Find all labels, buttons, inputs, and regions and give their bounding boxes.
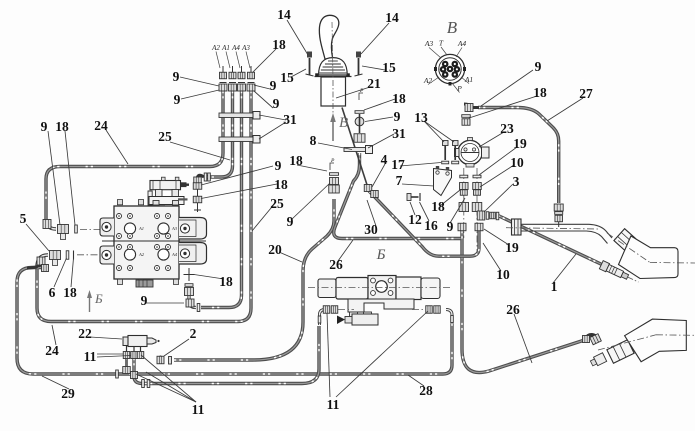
svg-text:27: 27 bbox=[579, 86, 593, 101]
svg-text:18: 18 bbox=[274, 177, 288, 192]
label 15 bbox=[382, 60, 396, 75]
label 19 bbox=[505, 240, 519, 255]
leader 17 bbox=[400, 163, 441, 167]
bulkhead flange 19 bbox=[512, 219, 522, 235]
label 14 bbox=[277, 7, 291, 22]
label 30 bbox=[364, 222, 378, 237]
elbow connectors item 4 bbox=[364, 185, 378, 198]
svg-text:14: 14 bbox=[277, 7, 291, 22]
datum mark above fitting (item 18 tag) bbox=[359, 88, 364, 100]
leader 19 bottom bbox=[484, 229, 509, 245]
svg-text:18: 18 bbox=[219, 274, 233, 289]
valve 22 three lower studs with tee fittings 11 bbox=[123, 346, 144, 359]
hose 20/2 bbox=[174, 199, 334, 360]
leader 28 bbox=[408, 375, 424, 386]
label 9 bbox=[447, 219, 454, 234]
duct tube to upper nozzle bbox=[521, 224, 612, 243]
label 11 bbox=[84, 349, 97, 364]
label view B title bbox=[447, 18, 458, 37]
lower nozzle elbow fitting bbox=[583, 334, 602, 345]
label 18 bbox=[55, 119, 69, 134]
hose 24 (pipe A2 to left elbow) bbox=[46, 91, 223, 219]
leader 26 right bbox=[514, 314, 532, 363]
fittings 18/10 chain left x463 bbox=[459, 183, 469, 212]
leader 26 mid bbox=[338, 240, 353, 261]
label 18 bbox=[63, 285, 77, 300]
elbow fitting row1 left bbox=[43, 219, 56, 229]
leader 11 left b bbox=[97, 356, 131, 358]
fitting 9 on chain x189 bbox=[185, 284, 194, 296]
pipe label A3 bbox=[241, 44, 250, 68]
fittings 10/19 chain right x477 bbox=[472, 183, 482, 212]
washer 18 on chain x359 bbox=[355, 111, 364, 114]
label 26 bbox=[506, 302, 520, 317]
leader 15 left bbox=[291, 69, 306, 77]
svg-text:A1: A1 bbox=[138, 226, 144, 231]
svg-text:17: 17 bbox=[391, 157, 405, 172]
svg-text:A4: A4 bbox=[231, 44, 240, 52]
svg-text:10: 10 bbox=[496, 267, 510, 282]
manifold assembly on top of valve block bbox=[148, 177, 189, 205]
washers 19 under valve 23 bbox=[460, 175, 481, 178]
svg-text:18: 18 bbox=[272, 37, 286, 52]
label 18 bbox=[219, 274, 233, 289]
leader 16 bbox=[420, 202, 430, 221]
svg-text:11: 11 bbox=[84, 349, 97, 364]
svg-text:6: 6 bbox=[49, 285, 56, 300]
svg-text:8: 8 bbox=[310, 133, 317, 148]
label 9 bbox=[141, 293, 148, 308]
svg-text:12: 12 bbox=[408, 212, 422, 227]
coupling on hose at valve22 middle elbow bbox=[142, 380, 150, 388]
hose 26 junction stub up bbox=[460, 223, 463, 239]
cylinder mounting bracket bbox=[348, 299, 414, 319]
svg-text:A2: A2 bbox=[423, 76, 433, 85]
label 9 bbox=[270, 78, 277, 93]
fitting 9 on chain x359 bbox=[355, 114, 364, 133]
label 9 bbox=[394, 109, 401, 124]
pin label T bbox=[439, 39, 447, 56]
label 18 bbox=[533, 85, 547, 100]
svg-text:18: 18 bbox=[392, 91, 406, 106]
svg-text:13: 13 bbox=[414, 110, 428, 125]
svg-text:A4: A4 bbox=[171, 252, 178, 257]
dash-dot line row1 to block bbox=[80, 228, 113, 230]
svg-text:A2: A2 bbox=[138, 252, 145, 257]
power cylinder assembly bbox=[308, 276, 452, 301]
label 2 bbox=[190, 326, 197, 341]
leader 18 chain463 bbox=[440, 190, 460, 206]
label 21 bbox=[367, 76, 381, 91]
tee fitting 9 row1 bbox=[58, 225, 69, 240]
leader 31 b bbox=[259, 122, 286, 139]
fitting 11 on middle drop bbox=[131, 372, 138, 379]
leader 22 bbox=[90, 337, 122, 339]
svg-text:20: 20 bbox=[268, 242, 282, 257]
label 6 bbox=[49, 285, 56, 300]
label 12 bbox=[408, 212, 422, 227]
valve block (spool valve assembly) bbox=[102, 206, 206, 279]
svg-text:5: 5 bbox=[20, 211, 27, 226]
svg-text:9: 9 bbox=[41, 119, 48, 134]
leader 18 hose27 bbox=[469, 96, 537, 118]
label 10 bbox=[496, 267, 510, 282]
leader 18 P-mark bbox=[297, 165, 327, 171]
svg-text:28: 28 bbox=[419, 383, 433, 398]
hose from joystick base to node 4 bbox=[342, 108, 369, 192]
svg-text:9: 9 bbox=[270, 78, 277, 93]
label 31 bbox=[283, 112, 297, 127]
svg-text:Б: Б bbox=[376, 247, 386, 263]
leader 30 bbox=[367, 200, 376, 226]
section arrow B (lower left) bbox=[87, 290, 103, 312]
leader 27 bbox=[547, 98, 583, 121]
label 19 bbox=[513, 136, 527, 151]
leader 9 chain463 bbox=[450, 198, 465, 223]
fitting 18 at hose 27 lower end bbox=[554, 204, 563, 227]
bolts on valve block top and bottom edges bbox=[117, 200, 178, 287]
leader 1 bbox=[553, 254, 576, 283]
leader 25 pipe bbox=[252, 202, 276, 231]
svg-text:В: В bbox=[339, 115, 348, 131]
svg-text:4: 4 bbox=[381, 152, 388, 167]
washer on chain x334 bbox=[330, 173, 339, 176]
label 5 bbox=[20, 211, 27, 226]
label 3 bbox=[513, 174, 520, 189]
svg-text:31: 31 bbox=[392, 126, 406, 141]
leader 11 left a bbox=[97, 353, 123, 355]
tee fitting 3 and couplings on line to hose 1 bbox=[477, 211, 499, 220]
svg-text:9: 9 bbox=[173, 69, 180, 84]
label 27 bbox=[579, 86, 593, 101]
svg-text:15: 15 bbox=[280, 70, 294, 85]
svg-text:Б: Б bbox=[94, 291, 103, 306]
leader 18 pipes bbox=[253, 49, 276, 72]
label 9 bbox=[174, 92, 181, 107]
svg-text:A1: A1 bbox=[221, 44, 230, 52]
clamp 31 upper on pipe bundle bbox=[219, 112, 260, 120]
pipe label A4 bbox=[231, 44, 240, 68]
svg-text:P: P bbox=[330, 158, 335, 164]
leader 9 pipes r1 bbox=[254, 85, 270, 89]
leader 6 bbox=[54, 258, 67, 287]
leader 18 cross bbox=[194, 275, 224, 280]
elbow fittings at junction x462/x479 bbox=[458, 223, 483, 231]
svg-text:9: 9 bbox=[287, 214, 294, 229]
label 9 bbox=[287, 214, 294, 229]
svg-text:9: 9 bbox=[174, 92, 181, 107]
elbow fittings row2 left bbox=[27, 255, 49, 272]
leader 5 bbox=[26, 224, 49, 251]
svg-text:23: 23 bbox=[500, 121, 514, 136]
leader 13 b bbox=[424, 121, 454, 142]
svg-text:9: 9 bbox=[394, 109, 401, 124]
svg-text:19: 19 bbox=[505, 240, 519, 255]
label 14 bbox=[385, 10, 399, 25]
svg-text:9: 9 bbox=[273, 96, 280, 111]
leader 18 left top bbox=[65, 131, 75, 225]
lower nozzle small nipple bbox=[589, 353, 606, 368]
svg-text:A2: A2 bbox=[211, 44, 220, 52]
leader 9 pipes l1 bbox=[180, 77, 219, 86]
label 24 bbox=[94, 118, 108, 133]
leader 7 bbox=[402, 184, 434, 186]
svg-text:30: 30 bbox=[364, 222, 378, 237]
svg-text:14: 14 bbox=[385, 10, 399, 25]
label 22 bbox=[78, 326, 92, 341]
pump under cylinder bbox=[337, 314, 378, 325]
clamp 31 lower on pipe bundle bbox=[219, 136, 260, 144]
hose 1 bbox=[498, 216, 604, 266]
leader 14 left bbox=[287, 20, 308, 55]
leader 13 a bbox=[424, 121, 444, 142]
leader 9 pipes r2 bbox=[254, 91, 273, 108]
label 24 bbox=[45, 343, 59, 358]
label 7 bbox=[396, 173, 403, 188]
valve block right solenoid covers bbox=[179, 218, 207, 265]
svg-text:16: 16 bbox=[424, 218, 438, 233]
leader 24 bottom bbox=[52, 325, 56, 345]
svg-text:1: 1 bbox=[551, 279, 558, 294]
leader 20 bbox=[279, 252, 302, 262]
bolt 12 with washer 16 bbox=[407, 193, 420, 201]
label 9 bbox=[173, 69, 180, 84]
label 17 bbox=[391, 157, 405, 172]
leader 29 bbox=[42, 376, 69, 389]
pin label A4 bbox=[456, 39, 466, 57]
svg-text:21: 21 bbox=[367, 76, 381, 91]
svg-text:2: 2 bbox=[190, 326, 197, 341]
pin label P bbox=[452, 83, 462, 93]
label 9 bbox=[41, 119, 48, 134]
svg-text:22: 22 bbox=[78, 326, 92, 341]
label 18 bbox=[431, 199, 445, 214]
svg-text:11: 11 bbox=[192, 402, 205, 417]
leader 9 long bbox=[201, 166, 273, 185]
leader 24 top bbox=[106, 130, 128, 164]
leader 11 bottom a bbox=[141, 355, 196, 402]
washer 18 row2 bbox=[73, 251, 75, 260]
washer 18 row1 bbox=[75, 225, 78, 233]
svg-text:9: 9 bbox=[141, 293, 148, 308]
label 31 bbox=[392, 126, 406, 141]
label 4 bbox=[381, 152, 388, 167]
label 26 bbox=[329, 257, 343, 272]
hose stub valve22 left port bbox=[125, 352, 128, 369]
label 13 bbox=[414, 110, 428, 125]
svg-text:24: 24 bbox=[45, 343, 59, 358]
leader 10 bottom bbox=[483, 243, 501, 271]
label 18 bbox=[392, 91, 406, 106]
hose 26 (long run to lower nozzle) bbox=[334, 153, 583, 373]
leader 9 hose27 bbox=[481, 70, 533, 106]
svg-text:25: 25 bbox=[158, 129, 172, 144]
pin label A2 bbox=[423, 76, 439, 85]
svg-text:18: 18 bbox=[431, 199, 445, 214]
hose 1 end fitting assembly bbox=[599, 261, 640, 286]
svg-text:25: 25 bbox=[270, 196, 284, 211]
leader 18 long bbox=[201, 184, 277, 199]
svg-text:26: 26 bbox=[506, 302, 520, 317]
leader 25 top bbox=[170, 142, 230, 160]
label 11 bbox=[192, 402, 205, 417]
svg-text:A3: A3 bbox=[171, 226, 178, 231]
label 23 bbox=[500, 121, 514, 136]
datum mark P near fitting x334 bbox=[330, 158, 335, 170]
leader 21 bbox=[336, 87, 370, 98]
svg-text:15: 15 bbox=[382, 60, 396, 75]
svg-text:9: 9 bbox=[535, 59, 542, 74]
leader 23 bbox=[479, 132, 504, 147]
hose (pipe A3 bottom loop) bbox=[37, 91, 251, 322]
lower nozzle corrugated adapter bbox=[607, 340, 634, 364]
leader 9 chain189 bbox=[146, 302, 184, 304]
svg-text:18: 18 bbox=[533, 85, 547, 100]
valve 22 (shut-off valve) bbox=[123, 336, 160, 347]
svg-text:A4: A4 bbox=[457, 39, 467, 48]
elbow fitting at hose 27 start bbox=[464, 104, 479, 112]
connector circle view B bbox=[434, 54, 466, 85]
svg-text:18: 18 bbox=[289, 153, 303, 168]
dash-dot line row2 to block bbox=[77, 254, 113, 256]
svg-text:9: 9 bbox=[447, 219, 454, 234]
label 9 bbox=[273, 96, 280, 111]
upper heater nozzle duct bbox=[506, 228, 695, 279]
elbow to horizontal y307 bbox=[186, 296, 200, 312]
label 9 bbox=[275, 158, 282, 173]
leader 8 bbox=[318, 143, 352, 150]
pin label A1 bbox=[461, 75, 473, 84]
leader 9 pipes l2 bbox=[181, 90, 219, 99]
hose (valve 22 middle port to cylinder left port) bbox=[134, 326, 319, 384]
cylinder right port fittings 11 bbox=[412, 306, 453, 324]
pressure valve 23 bbox=[455, 138, 490, 168]
leader 3 bbox=[484, 184, 513, 212]
fittings 9/18 under manifold (x197) bbox=[193, 183, 202, 212]
label 25 bbox=[270, 196, 284, 211]
pipe top fittings row (A2 A1 A4 A3) bbox=[219, 66, 255, 91]
leader 11 bottom c bbox=[136, 374, 196, 402]
washer/fitting 18 below hose27 elbow bbox=[462, 115, 471, 126]
leader 11 bottom b bbox=[146, 372, 196, 402]
bolts 13 bbox=[443, 141, 459, 161]
tee fitting 5 row2 bbox=[50, 251, 61, 266]
svg-text:3: 3 bbox=[513, 174, 520, 189]
label 8 bbox=[310, 133, 317, 148]
pipe label A2 bbox=[211, 44, 220, 68]
svg-text:A3: A3 bbox=[424, 39, 434, 48]
valve 2 with coupling bbox=[157, 356, 172, 365]
leader 18 row2 bbox=[71, 258, 74, 287]
svg-text:18: 18 bbox=[55, 119, 69, 134]
dash-dot stems under valve 23 bbox=[464, 168, 477, 252]
lower heater nozzle duct bbox=[598, 319, 695, 362]
hose 29/28 outer loop to cylinder right port bbox=[17, 268, 452, 375]
leader 15 right bbox=[362, 66, 385, 70]
hose 27 bbox=[478, 108, 559, 204]
label 11 bbox=[327, 397, 340, 412]
leader 18 x359 bbox=[364, 99, 395, 110]
svg-text:18: 18 bbox=[63, 285, 77, 300]
washers 17 under bolts bbox=[442, 161, 459, 164]
tee fitting 11 on main line below valve22 left stud bbox=[116, 367, 131, 379]
label 18 bbox=[272, 37, 286, 52]
joystick mounting bolt 14 left bbox=[306, 52, 314, 77]
leader 9 left top bbox=[48, 131, 60, 225]
label 9 bbox=[535, 59, 542, 74]
valve block left ears bbox=[100, 218, 114, 264]
leader 11 mid b bbox=[336, 311, 428, 397]
leader 10 top bbox=[480, 165, 514, 187]
fitting 9 on chain x334 bbox=[329, 178, 340, 194]
upper nozzle corrugated adapter bbox=[614, 229, 636, 251]
svg-text:29: 29 bbox=[61, 386, 75, 401]
label 10 bbox=[510, 155, 524, 170]
svg-text:7: 7 bbox=[396, 173, 403, 188]
label 20 bbox=[268, 242, 282, 257]
hose 30 bbox=[369, 191, 479, 256]
leader 31 x359 bbox=[368, 134, 394, 148]
svg-text:9: 9 bbox=[275, 158, 282, 173]
svg-text:26: 26 bbox=[329, 257, 343, 272]
label 18 bbox=[274, 177, 288, 192]
label 29 bbox=[61, 386, 75, 401]
leader 19 top bbox=[479, 147, 517, 175]
label 16 bbox=[424, 218, 438, 233]
svg-text:31: 31 bbox=[283, 112, 297, 127]
leader 9 x359 bbox=[365, 117, 393, 122]
pin label A3 bbox=[424, 39, 441, 58]
leader 11 mid a bbox=[327, 313, 330, 397]
joystick control lever 21 bbox=[315, 15, 352, 114]
nut fitting on chain x359 bbox=[354, 134, 365, 143]
elbow fitting on manifold to hose 25 bbox=[194, 173, 211, 183]
leader 9 x334 bbox=[292, 183, 330, 219]
svg-text:В: В bbox=[447, 18, 458, 37]
svg-text:11: 11 bbox=[327, 397, 340, 412]
cross fitting 18 below solenoid covers bbox=[184, 268, 195, 281]
svg-text:24: 24 bbox=[94, 118, 108, 133]
washer 6 row2 bbox=[66, 251, 69, 260]
hose 25 (pipe A1 to manifold elbow) bbox=[206, 91, 233, 177]
leader 4 bbox=[372, 164, 385, 187]
bracket 7 bbox=[434, 166, 452, 196]
pipe label A1 bbox=[221, 44, 230, 68]
hose (pipe A4 down to elbow chain) bbox=[201, 91, 242, 308]
label 15 bbox=[280, 70, 294, 85]
leader 31 a bbox=[259, 115, 286, 120]
joystick mounting bolt 14 right bbox=[355, 52, 363, 77]
label 1 bbox=[551, 279, 558, 294]
leader 2 bbox=[164, 339, 189, 356]
label 18 bbox=[289, 153, 303, 168]
svg-text:19: 19 bbox=[513, 136, 527, 151]
label 25 bbox=[158, 129, 172, 144]
clamp 31 on hose 26 bbox=[344, 146, 373, 154]
leader 12 bbox=[410, 202, 415, 215]
svg-text:A3: A3 bbox=[241, 44, 250, 52]
view arrow B (down from joystick) bbox=[330, 113, 348, 141]
leader 14 right bbox=[361, 23, 389, 54]
svg-text:10: 10 bbox=[510, 155, 524, 170]
label B near cylinder bbox=[376, 247, 386, 263]
cylinder left port fittings 11 bbox=[318, 306, 354, 325]
label 28 bbox=[419, 383, 433, 398]
